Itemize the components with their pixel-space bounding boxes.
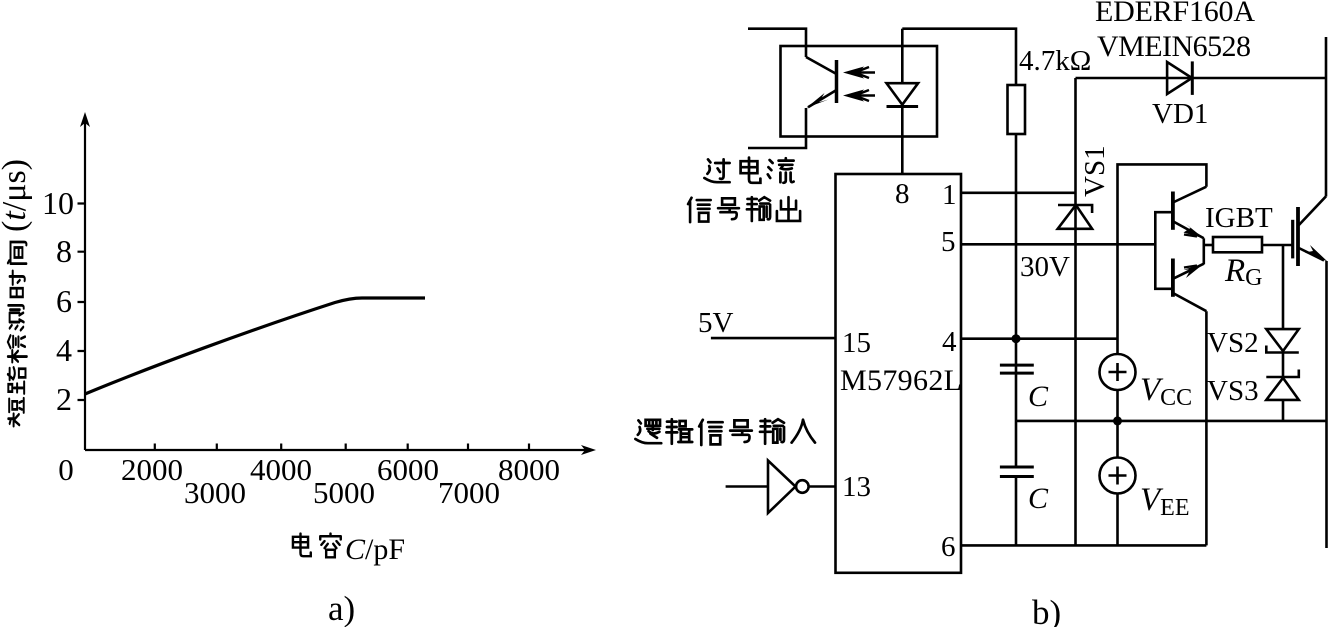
resistor R1 4.7k body bbox=[1008, 85, 1026, 134]
svg-text:a): a) bbox=[328, 589, 355, 627]
source Vee plus bbox=[1109, 467, 1127, 485]
phototransistor collector bbox=[806, 57, 837, 74]
optocoupler box U2 bbox=[781, 46, 938, 137]
svg-text:VS2: VS2 bbox=[1207, 327, 1259, 359]
svg-text:1: 1 bbox=[942, 179, 957, 211]
wire pin 5 bbox=[961, 243, 1155, 246]
svg-text:13: 13 bbox=[842, 471, 871, 503]
wire C2 to pin6 bbox=[1015, 477, 1018, 546]
svg-text:7000: 7000 bbox=[438, 475, 500, 510]
zener VS2 bar bbox=[1266, 346, 1299, 353]
phototransistor emitter bbox=[808, 90, 837, 107]
svg-text:2000: 2000 bbox=[121, 452, 183, 487]
light arrowhead 2 bbox=[843, 90, 864, 102]
svg-text:4.7kΩ: 4.7kΩ bbox=[1019, 45, 1091, 77]
Q1 emitter arrowhead bbox=[1184, 224, 1205, 239]
transistor Q1 collector bbox=[1173, 187, 1207, 203]
svg-text:VS1: VS1 bbox=[1079, 145, 1111, 197]
wire: output top stub bbox=[748, 29, 806, 57]
wire: LED to pin 8 bbox=[901, 107, 904, 174]
svg-text:10: 10 bbox=[42, 185, 74, 221]
LED D1 cathode bar bbox=[887, 105, 919, 108]
text 过电流 bbox=[704, 158, 793, 183]
svg-text:8000: 8000 bbox=[498, 452, 560, 487]
x axis bbox=[85, 449, 588, 451]
LED D1 anode wire bbox=[901, 29, 904, 83]
wire right collector rail bbox=[1325, 37, 1328, 197]
text 逻辑信号输入 bbox=[635, 419, 815, 445]
wire IGBT emitter down bbox=[1325, 261, 1328, 548]
IGBT gate bar bbox=[1291, 220, 1294, 259]
svg-text:8: 8 bbox=[56, 233, 72, 269]
wire Q2 collector down bbox=[1205, 311, 1208, 545]
transistor Q1 emitter bbox=[1173, 221, 1204, 238]
source Vee circle bbox=[1100, 458, 1136, 494]
transistor Q2 emitter bbox=[1173, 264, 1204, 279]
wire Vcc rail to upper collector bbox=[1118, 164, 1207, 354]
svg-text:RG: RG bbox=[1224, 253, 1263, 291]
y axis arrow bbox=[80, 112, 90, 127]
wire VS2-VS3 bbox=[1282, 353, 1285, 378]
svg-text:C/pF: C/pF bbox=[345, 533, 405, 566]
wire gate node down to VS2 bbox=[1282, 245, 1285, 329]
zener VS2 triangle bbox=[1266, 329, 1299, 351]
wire: top rail to resistor bbox=[902, 29, 1016, 85]
svg-text:IGBT: IGBT bbox=[1205, 202, 1273, 234]
x ticks bbox=[155, 444, 529, 451]
svg-text:(t/μs): (t/μs) bbox=[0, 159, 33, 232]
wire pin 1 bbox=[961, 192, 1076, 195]
base tie wire bbox=[1155, 212, 1173, 289]
wire C1 bottom to C2 top bbox=[1015, 365, 1018, 467]
wire 5V to pin 15 bbox=[711, 337, 836, 340]
text 信号输出 bbox=[688, 197, 800, 222]
source Vcc circle bbox=[1100, 354, 1136, 390]
svg-text:2: 2 bbox=[56, 381, 72, 417]
wire mid rail bbox=[1016, 420, 1327, 423]
junction dot pin4/R1 bbox=[1012, 334, 1021, 343]
LED D1 triangle bbox=[887, 83, 919, 105]
diode VD1 cathode bar bbox=[1191, 61, 1194, 95]
svg-text:5000: 5000 bbox=[313, 475, 375, 510]
svg-text:VCC: VCC bbox=[1140, 372, 1192, 411]
resistor RG body bbox=[1213, 237, 1262, 252]
wire VS3 down bbox=[1282, 400, 1285, 421]
inverter U3 triangle bbox=[768, 461, 796, 514]
y axis bbox=[84, 120, 86, 450]
svg-text:0: 0 bbox=[58, 452, 74, 487]
wire: resistor down to pin4 node and C1 bbox=[1015, 134, 1018, 365]
zener VS3 bar bbox=[1266, 370, 1299, 378]
svg-text:VEE: VEE bbox=[1140, 482, 1190, 521]
source Vcc plus bbox=[1109, 363, 1127, 381]
svg-text:C: C bbox=[1028, 482, 1049, 515]
IC U1 M57962L box bbox=[836, 174, 962, 573]
curve bbox=[85, 298, 425, 394]
capacitor C2 plates bbox=[1000, 467, 1034, 477]
zener VS1 triangle bbox=[1058, 205, 1092, 229]
x tick labels row2 bbox=[184, 475, 500, 510]
svg-text:4: 4 bbox=[942, 326, 957, 358]
light arrowhead 1 bbox=[843, 67, 864, 79]
wire mid rail to Vee bbox=[1116, 421, 1119, 458]
x axis label 电容C/pF bbox=[293, 533, 405, 566]
svg-text:6: 6 bbox=[941, 531, 956, 563]
svg-text:4000: 4000 bbox=[250, 452, 312, 487]
wire VD1 rail bbox=[1076, 77, 1327, 80]
IGBT collector bbox=[1299, 196, 1326, 225]
wire Vee to pin6 bbox=[1116, 494, 1119, 546]
wire: output bottom stub bbox=[748, 108, 806, 148]
y axis label (rotated CJK) 短路检测时间 bbox=[0, 159, 33, 426]
capacitor C1 plates bbox=[1000, 365, 1034, 373]
IGBT emitter arrowhead bbox=[1305, 245, 1328, 262]
zener VS1 cathode bar bbox=[1058, 205, 1092, 213]
transistor Q1 base bar bbox=[1171, 192, 1175, 230]
IGBT channel bar bbox=[1296, 207, 1300, 266]
wire emitter joint bbox=[1203, 238, 1206, 264]
svg-text:3000: 3000 bbox=[184, 475, 246, 510]
svg-text:5: 5 bbox=[941, 226, 956, 258]
inverter U3 input wire bbox=[726, 485, 768, 488]
wire emitters to RG bbox=[1204, 244, 1213, 247]
junction dot mid rail bbox=[1113, 416, 1122, 425]
svg-text:6000: 6000 bbox=[377, 452, 439, 487]
wire RG to gate bbox=[1262, 244, 1293, 247]
transistor Q2 collector bbox=[1173, 293, 1207, 311]
phototransistor base bar bbox=[835, 60, 839, 103]
svg-text:b): b) bbox=[1032, 593, 1061, 627]
svg-text:M57962L: M57962L bbox=[840, 364, 962, 397]
wire pin 6 bbox=[961, 544, 1206, 547]
x tick labels row1 bbox=[58, 452, 560, 487]
svg-text:5V: 5V bbox=[698, 307, 734, 339]
svg-text:EDERF160A: EDERF160A bbox=[1095, 0, 1255, 28]
light arrow 1 bbox=[852, 71, 875, 74]
IGBT emitter bbox=[1299, 248, 1324, 260]
transistor Q2 base bar bbox=[1171, 259, 1175, 297]
phototransistor emitter arrow bbox=[807, 93, 829, 108]
y tick labels bbox=[42, 185, 74, 417]
svg-text:C: C bbox=[1028, 380, 1049, 413]
svg-text:VD1: VD1 bbox=[1152, 98, 1208, 130]
VS1 rail vertical bbox=[1074, 78, 1077, 545]
svg-text:4: 4 bbox=[56, 332, 72, 368]
svg-text:VMEIN6528: VMEIN6528 bbox=[1097, 30, 1251, 63]
svg-text:30V: 30V bbox=[1020, 251, 1070, 283]
svg-text:VS3: VS3 bbox=[1207, 375, 1259, 407]
wire Vcc to mid rail bbox=[1116, 390, 1119, 421]
svg-text:6: 6 bbox=[56, 283, 72, 319]
Q2 emitter arrowhead bbox=[1184, 264, 1205, 279]
x axis arrow bbox=[581, 445, 596, 455]
wire bubble to pin 13 bbox=[809, 485, 836, 488]
svg-text:15: 15 bbox=[842, 327, 871, 359]
svg-text:8: 8 bbox=[895, 178, 910, 210]
zener VS3 triangle bbox=[1266, 378, 1299, 400]
wire pin 4 bbox=[961, 337, 1118, 340]
light arrow 2 bbox=[852, 94, 875, 97]
diode VD1 triangle bbox=[1167, 62, 1192, 94]
y ticks bbox=[78, 204, 86, 401]
inverter U3 bubble bbox=[796, 480, 809, 493]
